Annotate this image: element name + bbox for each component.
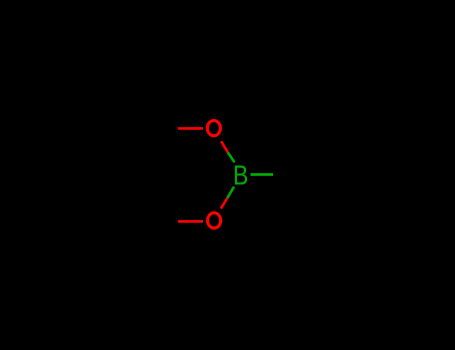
wire O-B bond top, O half (red) [221,141,228,152]
node O2 (bottom oxygen) [208,213,221,228]
svg-text:B: B [233,161,248,192]
node O1 (top oxygen) [207,121,220,136]
wire O-B bond bottom, B half (green) [227,187,234,198]
wire O-B bond bottom, O half (red) [221,198,227,209]
wire C-O bond stub (bottom, O side half) [178,220,203,223]
wire B-C bond stub (right, B side half) [251,173,274,176]
wire C-O bond stub (top, O side half) [178,127,203,130]
wire O-B bond top, B half (green) [228,152,235,162]
